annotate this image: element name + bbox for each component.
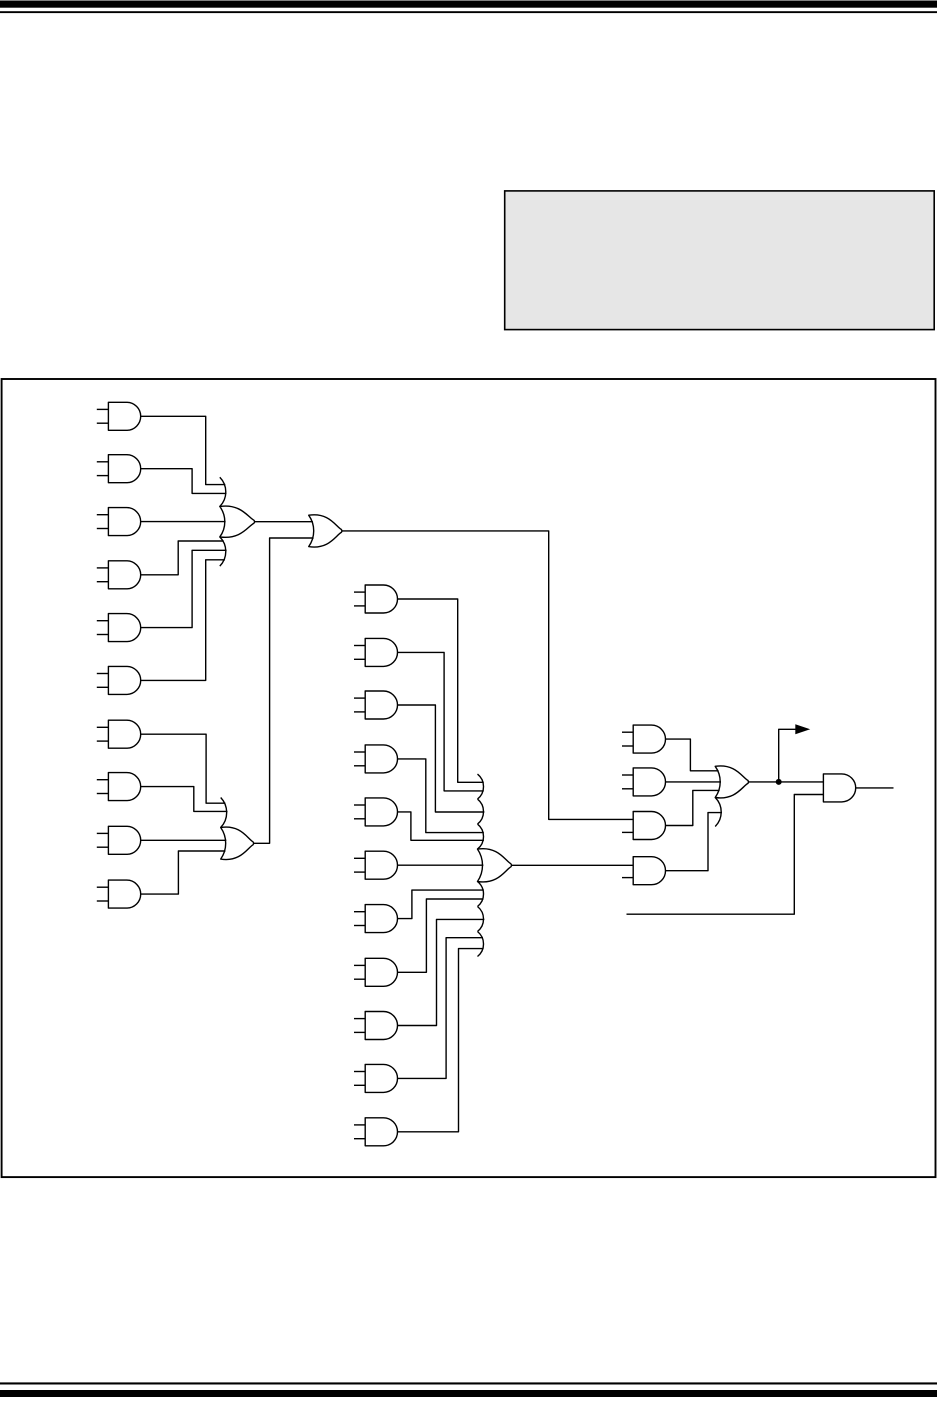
wire OR3 out to R4 in1 bbox=[512, 864, 633, 866]
wire M1 out to OR3 in bbox=[398, 599, 484, 782]
wire R4 out to OR4 in4 bbox=[666, 813, 723, 871]
AND gate M2 bbox=[354, 638, 398, 666]
figure frame bbox=[2, 379, 936, 1177]
wire OR1 out to OR2 in1 bbox=[255, 521, 313, 523]
wire R3 out to OR4 in3 bbox=[666, 790, 720, 825]
AND gate R1 bbox=[622, 725, 666, 753]
wire M6 out to OR3 center bbox=[398, 864, 484, 866]
AND gate L6 bbox=[97, 666, 141, 694]
wire L9 out to OR2b in3 bbox=[141, 839, 227, 841]
wire M8 out to OR3 in bbox=[398, 899, 484, 972]
AND gate L4 bbox=[97, 561, 141, 589]
wire M5 out to OR3 in bbox=[398, 812, 484, 840]
AND gate R4 bbox=[622, 857, 666, 885]
wire L10 out to OR2b in4 bbox=[141, 851, 226, 894]
wire M9 out to OR3 in bbox=[398, 919, 485, 1025]
AND gate R3 bbox=[622, 812, 666, 840]
footer thick rule bbox=[0, 1390, 937, 1397]
wire R1 out to OR4 in1 bbox=[666, 739, 719, 771]
AND gate M11 bbox=[354, 1118, 398, 1146]
AND gate M9 bbox=[354, 1012, 398, 1040]
wire L3 out to OR1 in3 bbox=[141, 521, 226, 523]
wire M11 out to OR3 in bbox=[398, 949, 484, 1132]
OR gate OR4 (4-input) bbox=[715, 766, 748, 827]
AND gate L2 bbox=[97, 455, 141, 483]
AND gate M5 bbox=[354, 798, 398, 826]
wire OR4 out to node A and R5 in1 bbox=[749, 781, 824, 783]
wire L7 out to OR2b in1 bbox=[141, 734, 226, 803]
AND gate R2 bbox=[622, 768, 666, 796]
wire L1 out to OR1 in1 bbox=[141, 416, 226, 484]
wire enable line to R5 in2 bbox=[627, 795, 824, 915]
wire M2 out to OR3 in bbox=[398, 652, 484, 791]
wire L6 out to OR1 in6 bbox=[141, 560, 225, 681]
AND gate L7 bbox=[97, 720, 141, 748]
AND gate L5 bbox=[97, 614, 141, 642]
AND gate L8 bbox=[97, 773, 141, 801]
AND gate L10 bbox=[97, 880, 141, 908]
wire R2 out to OR4 in2 bbox=[666, 781, 722, 783]
wire OR2b out to OR2 in2 bbox=[254, 538, 314, 843]
wire L5 out to OR1 in5 bbox=[141, 550, 227, 627]
AND gate M1 bbox=[354, 585, 398, 613]
wire L2 out to OR1 in2 bbox=[141, 469, 227, 494]
wire M10 out to OR3 in bbox=[398, 938, 484, 1079]
AND gate L9 bbox=[97, 826, 141, 854]
AND gate M6 bbox=[354, 851, 398, 879]
wire L8 out to OR2b in2 bbox=[141, 787, 228, 812]
AND gate L1 bbox=[97, 402, 141, 430]
header thick rule bbox=[0, 1, 937, 8]
AND gate R5 bbox=[823, 774, 855, 802]
footer thin rule bbox=[0, 1382, 937, 1384]
wake-up arrowhead bbox=[795, 724, 810, 734]
node A (junction dot) bbox=[776, 779, 782, 785]
AND gate M7 bbox=[354, 905, 398, 933]
note box (grey) bbox=[505, 191, 935, 330]
OR gate OR1 (6-input) bbox=[220, 477, 255, 566]
header thin rule bbox=[0, 11, 937, 13]
OR gate OR3 (11-input) bbox=[478, 774, 512, 956]
wire L4 out to OR1 in4 bbox=[141, 541, 224, 575]
AND gate M3 bbox=[354, 691, 398, 719]
wire R5 output (interrupt to CPU) bbox=[856, 787, 894, 789]
wire M4 out to OR3 in bbox=[398, 759, 484, 833]
OR gate OR2b (4-input) bbox=[221, 798, 254, 860]
AND gate M4 bbox=[354, 745, 398, 773]
wire node A to wake-up arrow bbox=[779, 729, 797, 782]
AND gate L3 bbox=[97, 508, 141, 536]
OR gate OR2 (2-input) bbox=[309, 515, 342, 547]
wire OR2 out to R3 in1 bbox=[342, 531, 633, 820]
AND gate M8 bbox=[354, 958, 398, 986]
wire M7 out to OR3 in bbox=[398, 890, 484, 919]
AND gate M10 bbox=[354, 1064, 398, 1092]
wire M3 out to OR3 in bbox=[398, 705, 485, 812]
